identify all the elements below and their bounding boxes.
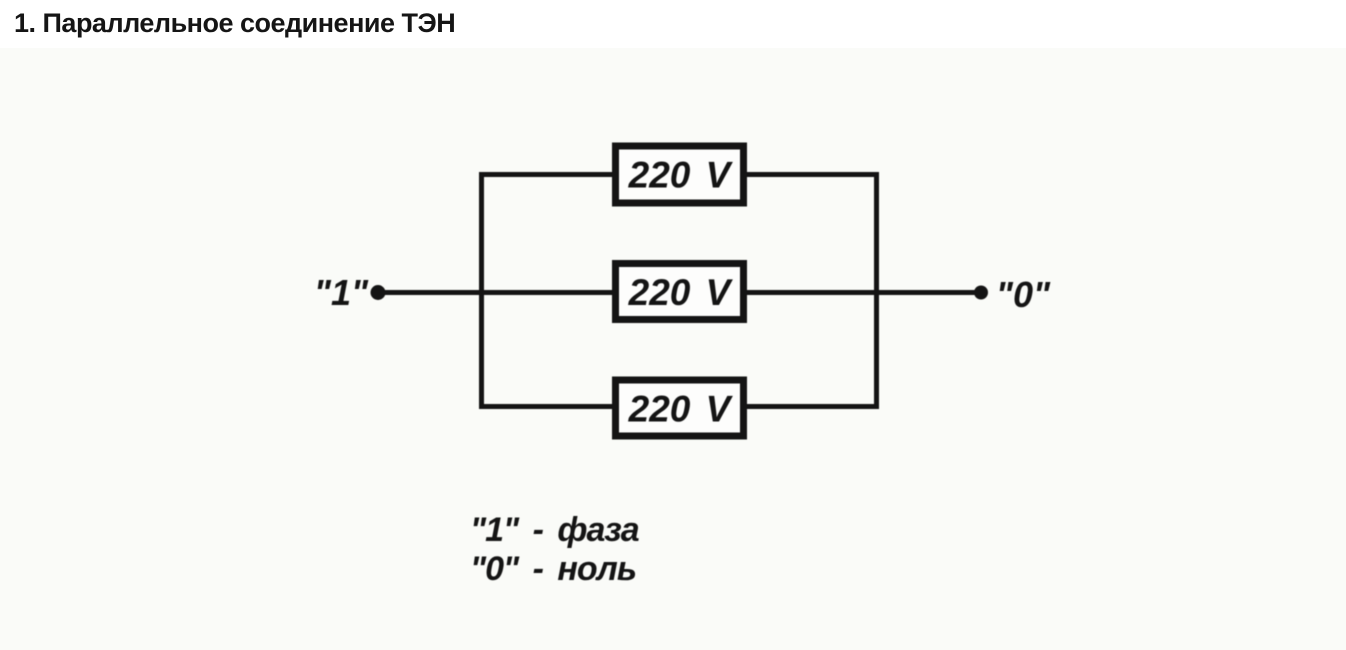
svg-text:"1" - фаза: "1" - фаза — [470, 511, 639, 549]
svg-text:V: V — [706, 155, 734, 196]
svg-text:"0" - ноль: "0" - ноль — [470, 550, 636, 588]
svg-text:220: 220 — [628, 272, 691, 313]
heating element EK1 value label 220 V — [628, 155, 734, 196]
svg-text:V: V — [706, 272, 734, 313]
svg-text:"0": "0" — [996, 274, 1051, 315]
heating element EK1 body (top 220 V box) — [616, 146, 744, 203]
heating element EK2 body (middle 220 V box) — [616, 264, 744, 320]
svg-text:220: 220 — [628, 155, 691, 196]
node "1" terminal dot (phase) — [371, 285, 386, 300]
right parallel bus wire (top-right corner to bottom-right corner) — [747, 175, 877, 407]
wire from middle heater to node 0 terminal, crossing right bus — [747, 290, 981, 295]
heating element EK3 body (bottom 220 V box) — [616, 380, 744, 436]
svg-text:V: V — [706, 389, 734, 430]
node "0" terminal dot (neutral) — [974, 286, 988, 300]
left parallel bus wire (top-left corner to bottom-left corner) — [482, 175, 613, 407]
heating element EK3 value label 220 V — [628, 389, 734, 430]
svg-text:220: 220 — [628, 389, 691, 430]
svg-text:"1": "1" — [314, 272, 369, 313]
heating element EK2 value label 220 V — [628, 272, 734, 313]
wire from node 1 terminal to middle heater, crossing left bus — [378, 290, 613, 295]
page title — [14, 8, 455, 39]
